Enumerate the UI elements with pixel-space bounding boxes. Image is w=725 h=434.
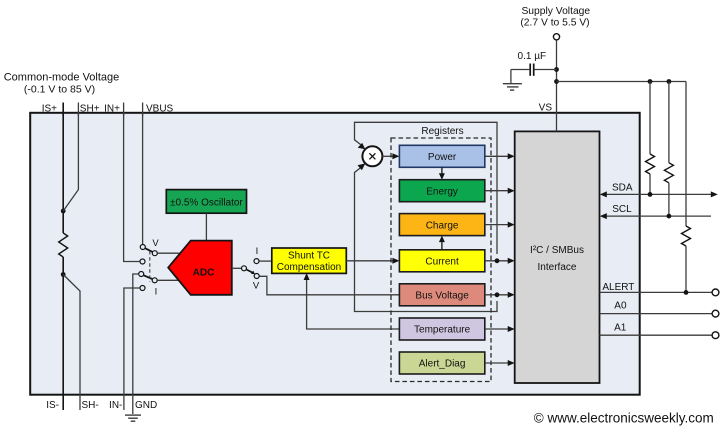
node capacitor junction [554,67,559,72]
svg-text:Charge: Charge [426,220,459,231]
svg-text:Compensation: Compensation [277,262,341,273]
svg-text:V: V [253,281,260,292]
terminal supply [553,34,559,40]
wire IS+ to shunt resistor [62,112,64,233]
svg-text:IS-: IS- [46,400,59,411]
wire Shunt TC to Current register [346,258,399,264]
wire SDA [600,183,718,198]
ADC converter [168,241,232,295]
multiplier [362,146,382,166]
wire I pole to ADC [157,279,179,281]
wire SCL [600,204,711,219]
svg-text:SH-: SH- [82,400,99,411]
wire IN+ to V switch [124,112,140,261]
wire A0 [600,301,713,314]
pin SH- [82,400,99,411]
label Supply Voltage [520,6,590,29]
wire current to multiplier [355,122,498,254]
wire oscillator to ADC [205,213,207,240]
wire VBUS to V switch [142,112,144,244]
svg-text:(2.7 V to 5.5 V): (2.7 V to 5.5 V) [520,18,589,29]
register Current [399,250,484,272]
wire Alert_Diag to interface [485,360,515,366]
pin VS [539,103,553,114]
terminal ALERT [712,289,719,296]
node shunt bottom [61,272,66,277]
register Energy [399,180,484,202]
svg-text:GND: GND [135,400,157,411]
pin GND [135,400,157,411]
svg-text:0.1 µF: 0.1 µF [518,51,547,62]
svg-text:A0: A0 [614,301,627,312]
register Power [399,145,484,167]
wire supply to VS [556,40,558,131]
svg-text:IN-: IN- [109,400,122,411]
wire Power to interface [485,153,515,159]
pin IS+ [42,103,63,117]
svg-text:SCL: SCL [612,204,632,215]
svg-text:ADC: ADC [193,268,215,279]
node pullup junction [554,79,559,84]
wire Current to Charge [439,236,445,250]
svg-text:A1: A1 [614,323,627,334]
switch V input [140,238,159,264]
svg-text:Interface: Interface [538,262,577,273]
resistor shunt [59,233,68,257]
wire Bus Voltage to interface [485,292,515,298]
node shunt top [61,209,66,214]
svg-text:ALERT: ALERT [602,282,634,293]
wire SH- [63,275,80,411]
svg-text:V: V [152,238,159,249]
wire pullup rail [557,81,687,83]
svg-text:Shunt TC: Shunt TC [288,251,330,262]
terminal A1 [712,332,719,339]
svg-text:(-0.1 V to 85 V): (-0.1 V to 85 V) [24,84,95,96]
svg-text:Bus Voltage: Bus Voltage [415,291,469,302]
svg-text:IN+: IN+ [104,104,120,115]
svg-text:IS+: IS+ [42,104,57,115]
Shunt TC Compensation block [272,248,347,273]
svg-text:Supply Voltage: Supply Voltage [521,6,590,17]
ground at capacitor [503,70,522,91]
node pullup SDA [648,79,653,84]
terminal A0 [712,310,719,317]
wire bus voltage to multiplier [355,163,498,311]
wire I contact to Shunt TC [259,260,272,262]
switch ADC output [242,246,260,292]
label Common-mode Voltage [4,72,120,96]
gang dashed link [149,251,151,282]
pin SH+ [78,103,99,117]
svg-text:±0.5% Oscillator: ±0.5% Oscillator [170,197,243,208]
svg-text:Energy: Energy [426,186,458,197]
wire shunt to IS- [62,257,64,410]
svg-text:Alert_Diag: Alert_Diag [419,359,466,370]
svg-text:I: I [256,246,259,257]
svg-text:Registers: Registers [421,126,463,137]
wire ADC output [232,267,241,269]
svg-text:VS: VS [539,103,553,114]
registers dashed box [391,126,491,382]
pin IS- [46,400,59,411]
wire V pole to ADC [158,252,181,254]
ground at GND pin [125,415,141,421]
resistor pullup ALERT [682,82,691,293]
svg-text:SH+: SH+ [80,104,100,115]
wire Charge to interface [485,222,515,228]
svg-text:I²C / SMBus: I²C / SMBus [530,245,584,256]
wire Temperature to interface [485,326,515,332]
watermark [534,411,714,426]
svg-text:VBUS: VBUS [146,104,174,115]
svg-text:I: I [155,287,158,298]
wire Current to interface [485,258,515,264]
node pullup SCL [667,79,672,84]
svg-text:Power: Power [428,152,457,163]
wire V contact to Bus Voltage register [260,276,400,295]
resistor pullup SDA [646,82,655,195]
pin VBUS [143,103,174,117]
wire Power to Energy [439,167,445,179]
wire Energy to interface [485,188,515,194]
oscillator [166,190,246,214]
wire A1 [600,323,713,336]
wire temperature to Shunt TC [304,273,400,329]
svg-text:© www.electronicsweekly.com: © www.electronicsweekly.com [534,411,714,426]
resistor pullup SCL [664,82,673,217]
I2C SMBus interface block [515,131,600,383]
register Alert_Diag [399,352,484,374]
svg-text:Common-mode Voltage: Common-mode Voltage [4,72,120,84]
chip body box [30,113,640,395]
switch I input [139,272,158,298]
wire GND to I switch [133,274,138,414]
pin IN+ [104,103,123,117]
wire multiplier to Power register [382,153,399,159]
wire IN- to I switch [124,288,139,410]
register Temperature [399,318,484,340]
wire SH+ [63,112,78,211]
register Bus Voltage [399,284,484,306]
svg-text:SDA: SDA [612,183,633,194]
svg-text:Temperature: Temperature [414,325,471,336]
register Charge [399,214,484,236]
svg-text:Current: Current [425,257,459,268]
pin IN- [109,400,122,411]
wire ALERT [600,282,713,295]
capacitor C1 0.1 uF [511,51,557,76]
